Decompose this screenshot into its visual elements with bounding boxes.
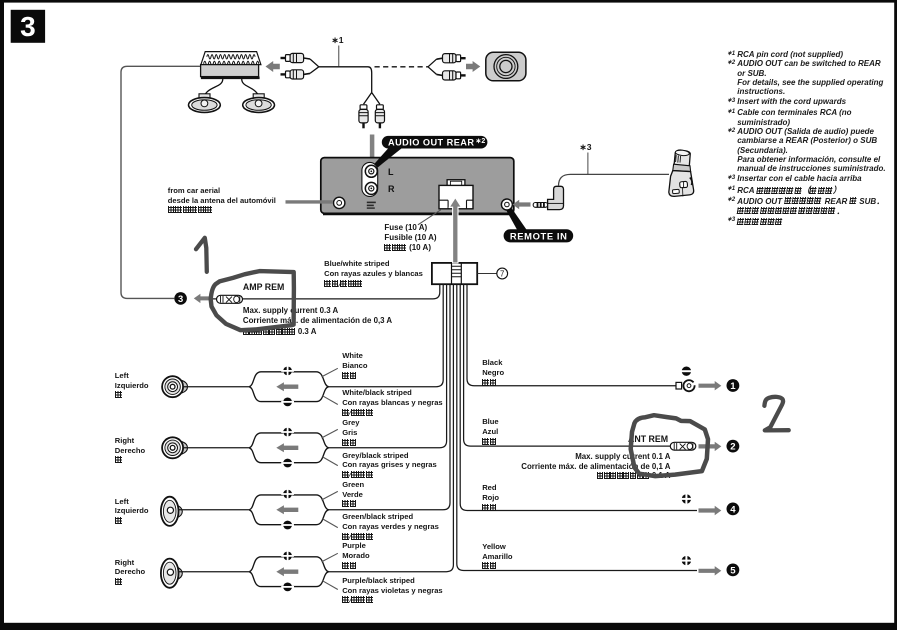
AUDIO OUT L/R jack capsule — [362, 162, 378, 196]
wire bundle line 4 rear right speaker pair — [328, 284, 453, 572]
circled 1 ground callout — [727, 379, 740, 392]
AMP REM in-line connector — [217, 295, 243, 303]
tiny AUDIO OUT panel text — [367, 202, 376, 209]
wire bundle line 2 front right speaker pair — [328, 284, 446, 448]
gray arrow to circled 4 — [699, 506, 722, 515]
hand-drawn digit 1 — [196, 238, 207, 272]
footnotes column English — [727, 50, 895, 106]
RCA pin plug left-pointing top — [281, 53, 311, 62]
plus symbol above yellow lead end — [680, 554, 694, 568]
RCA pin plug down-pointing right (to AUDIO OUT R) — [375, 105, 384, 129]
speaker label front right — [115, 436, 145, 465]
speaker front right (round) — [162, 437, 187, 458]
RCA pin plug left-pointing bottom — [281, 70, 311, 79]
circled 2 ANT REM callout — [727, 440, 740, 453]
wire label purple/black striped — [342, 576, 442, 606]
fuse label — [384, 223, 436, 254]
wire label green/black striped — [342, 512, 439, 542]
hand-drawn loop around ANT REM connector — [631, 415, 708, 476]
circled 4 accessory power callout — [727, 503, 740, 516]
hand-drawn digit 2 — [764, 397, 788, 431]
speaker pod rear right (purple / purple-black wires) — [249, 550, 338, 592]
wire label grey/black striped — [342, 451, 437, 481]
gray arrow from connector up into fuse socket — [449, 198, 461, 263]
wire from amplifier down left side to AMP REM lead — [121, 66, 201, 298]
step number 3 box — [11, 10, 45, 43]
speaker pod rear left (green / green-black wires) — [249, 488, 338, 530]
wire speaker rear left to pod — [179, 509, 250, 511]
power amplifier with heat sink — [201, 52, 261, 78]
gray arrow pointing left into amplifier — [266, 61, 280, 72]
AMP REM label — [243, 283, 284, 293]
wire bundle line 7 blue ANT REM lead — [464, 284, 671, 446]
head unit rear panel — [321, 158, 514, 215]
wire label green — [342, 480, 364, 510]
wire bundle line 8 black ground lead — [467, 284, 676, 386]
speaker pod front right (grey / grey-black wires) — [249, 426, 338, 468]
fuse holder on rear panel — [439, 180, 473, 209]
wire bundle line 3 rear left speaker pair — [328, 284, 450, 510]
wire bundle line 1 front left speaker pair — [328, 284, 443, 387]
ANT REM max supply note — [420, 452, 671, 481]
gray arrow pointing right to subwoofer — [466, 61, 480, 72]
wire bundle line 5 yellow battery lead — [457, 284, 697, 570]
AMP REM max supply note — [243, 306, 392, 338]
speaker front left (round) — [162, 376, 187, 397]
REMOTE IN badge — [504, 208, 574, 242]
RCA pin plug right-pointing top — [437, 54, 466, 63]
speaker cord right from amplifier — [242, 79, 259, 95]
circled 3 amplifier remote callout — [174, 292, 187, 305]
wiring harness connector block — [432, 263, 477, 284]
from car aerial label — [168, 186, 276, 215]
plus symbol above red lead end — [680, 492, 694, 506]
gray arrow into remote jack — [513, 200, 531, 209]
antenna input jack — [334, 197, 345, 208]
pointer line from fuse text to fuse holder — [418, 210, 441, 225]
gray arrow to circled 1 — [699, 381, 722, 390]
junction node to rear RCA drop — [364, 67, 380, 104]
RCA pin plug down-pointing left (to AUDIO OUT L) — [359, 105, 368, 129]
black ground lead ring terminal — [676, 380, 698, 391]
wire speaker front left to pod — [183, 386, 249, 388]
speaker label rear left — [115, 497, 149, 526]
speaker rear right (oval) — [161, 559, 182, 588]
speaker cord left from amplifier — [205, 79, 223, 95]
remote cord to rotary commander — [559, 174, 670, 186]
hand-drawn loop around AMP REM connector — [211, 271, 294, 330]
wire label red — [482, 483, 499, 513]
gray arrow down into AUDIO OUT jacks — [367, 134, 378, 164]
3.5mm right-angle plug — [533, 186, 563, 209]
powered subwoofer — [486, 52, 526, 81]
gray arrow to circled 5 — [699, 566, 722, 575]
wire label white/black striped — [342, 388, 442, 418]
gray aerial lead line — [286, 200, 333, 203]
Y-split to right-pointing RCA pair — [428, 59, 437, 74]
rotary commander — [669, 150, 694, 197]
AUDIO OUT REAR badge — [374, 136, 487, 167]
footnotes column Spanish — [727, 108, 897, 183]
speaker label rear right — [115, 558, 145, 587]
wire speaker front right to pod — [183, 447, 249, 449]
dashed RCA extension cord — [375, 66, 429, 68]
speaker pod front left (white / white-black wires) — [249, 365, 338, 407]
remote input jack — [501, 199, 512, 210]
circled 7 callout — [477, 268, 507, 279]
RCA pin plug right-pointing bottom — [437, 71, 466, 80]
wire label grey — [342, 418, 359, 448]
wire bundle line 0 blue/white AMP REM lead — [212, 284, 440, 299]
RCA cord Y-split to junction — [310, 59, 319, 73]
wire label blue — [482, 417, 498, 447]
blue/white striped label — [324, 259, 423, 290]
wire speaker rear right to pod — [179, 571, 250, 573]
wire label white — [342, 351, 367, 381]
speaker label front left — [115, 371, 149, 400]
ANT REM in-line connector — [670, 442, 696, 450]
minus symbol above ground terminal — [680, 367, 694, 376]
wire bundle line 6 red accessory lead — [460, 284, 697, 510]
amplifier speaker right (oval) — [243, 94, 275, 113]
RCA cord wire to junction — [319, 66, 368, 68]
footnote mark *1 — [332, 35, 344, 66]
footnote mark *3 — [580, 142, 592, 174]
speaker rear left (oval) — [161, 497, 182, 526]
gray arrow pointing left to circled 3 — [194, 294, 212, 303]
wire label yellow — [482, 542, 512, 572]
circled 5 battery power callout — [727, 564, 740, 577]
footnotes column Chinese — [727, 185, 896, 226]
gray arrow to circled 2 — [699, 442, 722, 451]
wire label purple — [342, 541, 369, 571]
L R jack letters — [388, 167, 395, 194]
ANT REM label — [628, 435, 668, 445]
amplifier speaker left (oval) — [189, 94, 221, 113]
wire label black — [482, 358, 504, 388]
